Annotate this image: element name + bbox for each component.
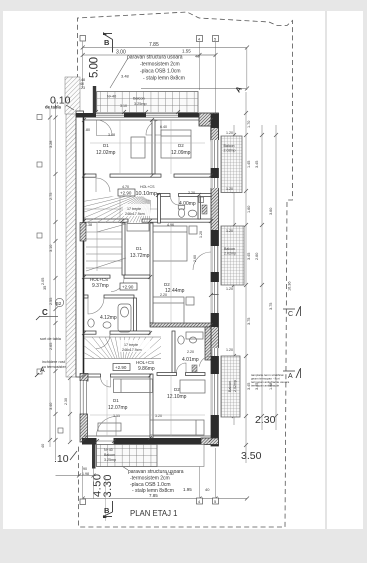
svg-text:3.50: 3.50 xyxy=(241,450,262,462)
svg-text:termopan antiefractie: termopan antiefractie xyxy=(251,384,280,388)
svg-text:B2: B2 xyxy=(56,301,62,306)
svg-text:4.96: 4.96 xyxy=(167,223,174,227)
svg-text:Balcon: Balcon xyxy=(224,144,235,148)
svg-text:B: B xyxy=(104,38,110,47)
svg-text:2.02mp: 2.02mp xyxy=(224,252,236,256)
svg-text:Balcon: Balcon xyxy=(228,381,232,392)
svg-text:1.98: 1.98 xyxy=(82,472,89,476)
svg-text:3.55: 3.55 xyxy=(113,414,120,418)
svg-text:12.10mp: 12.10mp xyxy=(167,394,187,400)
svg-text:inchidere rost: inchidere rost xyxy=(42,360,66,364)
svg-text:4.70: 4.70 xyxy=(122,185,129,189)
svg-text:7.85: 7.85 xyxy=(149,42,159,48)
svg-text:9.37mp: 9.37mp xyxy=(92,283,109,289)
svg-text:1.55: 1.55 xyxy=(182,49,191,54)
sheet fold line xyxy=(325,11,327,529)
lower-left wall: piers + window xyxy=(80,374,88,382)
svg-text:1.20: 1.20 xyxy=(226,131,233,135)
svg-text:D2: D2 xyxy=(178,143,184,148)
svg-text:Balcon: Balcon xyxy=(224,247,235,251)
svg-text:7.85: 7.85 xyxy=(149,493,158,498)
right wall xyxy=(211,114,219,446)
svg-text:40: 40 xyxy=(41,444,45,448)
svg-text:2.65: 2.65 xyxy=(49,343,53,350)
svg-text:D2: D2 xyxy=(174,387,180,392)
svg-text:N+40: N+40 xyxy=(104,448,113,452)
interior door arcs xyxy=(88,178,211,436)
svg-text:1.20: 1.20 xyxy=(226,287,233,291)
svg-text:40: 40 xyxy=(195,54,200,59)
C marker right xyxy=(283,308,295,310)
svg-text:2.20: 2.20 xyxy=(160,293,167,297)
svg-text:12.07mp: 12.07mp xyxy=(108,405,128,411)
svg-text:3.48: 3.48 xyxy=(108,133,115,137)
svg-text:HOL+CS: HOL+CS xyxy=(90,277,108,282)
svg-text:3.20: 3.20 xyxy=(155,414,162,418)
bottom wall xyxy=(82,438,201,445)
svg-text:paravan structura usoara: paravan structura usoara xyxy=(128,469,184,475)
top wall door+window D1 xyxy=(96,113,178,118)
right balcony 3 xyxy=(221,356,240,417)
svg-text:10.10mp: 10.10mp xyxy=(136,191,157,197)
svg-text:3.25mp: 3.25mp xyxy=(104,458,116,462)
svg-text:5.30: 5.30 xyxy=(166,471,175,476)
svg-text:3.45: 3.45 xyxy=(255,161,259,168)
svg-text:2.30: 2.30 xyxy=(255,414,276,426)
svg-text:12.44mp: 12.44mp xyxy=(165,288,185,294)
svg-text:D1: D1 xyxy=(103,143,109,148)
svg-text:4.01mp: 4.01mp xyxy=(182,357,199,363)
svg-text:D1: D1 xyxy=(113,398,119,403)
svg-text:3.00: 3.00 xyxy=(116,50,126,56)
svg-text:246x17.9cm: 246x17.9cm xyxy=(122,348,142,352)
svg-text:2.02mp: 2.02mp xyxy=(233,380,237,392)
svg-text:2.60: 2.60 xyxy=(193,255,197,262)
svg-text:-termosistem 2cm: -termosistem 2cm xyxy=(140,62,180,68)
left insulation strip xyxy=(66,111,76,377)
top-right corner hatch xyxy=(199,113,219,126)
bottom balcony xyxy=(97,445,205,467)
svg-text:17 trepte: 17 trepte xyxy=(127,207,141,211)
svg-text:C: C xyxy=(288,311,293,318)
svg-text:3.30: 3.30 xyxy=(102,475,114,498)
hatched pier left xyxy=(80,223,86,242)
faint interior dim lines xyxy=(90,120,205,436)
A marker right xyxy=(283,370,295,372)
top balcony xyxy=(97,92,198,113)
right balcony 2 xyxy=(221,226,244,285)
svg-text:.80: .80 xyxy=(85,128,90,132)
svg-text:12.02mp: 12.02mp xyxy=(96,150,116,156)
furniture xyxy=(98,130,205,435)
svg-text:1.60: 1.60 xyxy=(247,206,251,213)
svg-text:3.10: 3.10 xyxy=(120,104,127,108)
svg-text:9.86mp: 9.86mp xyxy=(138,366,155,372)
svg-text:A: A xyxy=(288,373,293,380)
svg-text:2.05: 2.05 xyxy=(41,278,45,285)
svg-text:C: C xyxy=(42,308,48,317)
balcony doors arcs xyxy=(97,120,162,136)
svg-text:6.40: 6.40 xyxy=(160,125,167,129)
svg-text:40: 40 xyxy=(205,487,210,492)
+2.90 level boxes xyxy=(113,189,137,371)
svg-text:1.95: 1.95 xyxy=(183,487,192,492)
stairs upper xyxy=(41,184,151,300)
svg-text:2.20: 2.20 xyxy=(187,350,194,354)
stair down-run left xyxy=(86,223,126,271)
top-left stub wall xyxy=(65,77,80,114)
svg-text:cu termosistem: cu termosistem xyxy=(42,365,68,369)
svg-text:.10: .10 xyxy=(54,453,69,465)
svg-text:1.70: 1.70 xyxy=(247,121,251,128)
svg-text:2.02mp: 2.02mp xyxy=(224,149,236,153)
svg-text:12.09mp: 12.09mp xyxy=(171,150,191,156)
svg-text:17 trepte: 17 trepte xyxy=(124,343,138,347)
top wall xyxy=(76,113,219,118)
svg-text:-placa OSB 1.0cm: -placa OSB 1.0cm xyxy=(140,69,181,75)
svg-text:90: 90 xyxy=(83,467,87,471)
svg-text:Balcon: Balcon xyxy=(133,97,145,101)
svg-text:3.28: 3.28 xyxy=(49,141,53,148)
right balcony 1 xyxy=(221,136,242,193)
svg-text:246x17.9cm: 246x17.9cm xyxy=(125,212,145,216)
svg-text:2.75: 2.75 xyxy=(49,193,53,200)
svg-text:3.48: 3.48 xyxy=(121,74,130,79)
svg-text:- stalp lemn 8x8cm: - stalp lemn 8x8cm xyxy=(143,76,185,82)
svg-text:D1: D1 xyxy=(136,246,142,251)
svg-text:1.20: 1.20 xyxy=(226,348,233,352)
svg-text:1.20: 1.20 xyxy=(226,229,233,233)
svg-text:N+40: N+40 xyxy=(107,95,116,99)
svg-text:de tabla: de tabla xyxy=(45,105,61,110)
svg-text:+2.90: +2.90 xyxy=(115,365,127,370)
svg-text:HOL+CS: HOL+CS xyxy=(140,185,155,189)
interior walls (double-line) xyxy=(84,120,211,438)
svg-text:+2.90: +2.90 xyxy=(120,191,132,196)
svg-text:1.38: 1.38 xyxy=(85,223,92,227)
room labels xyxy=(90,143,199,411)
svg-text:3.75: 3.75 xyxy=(247,318,251,325)
svg-text:16.36: 16.36 xyxy=(288,281,292,291)
svg-text:Balcon: Balcon xyxy=(104,453,115,457)
svg-text:3.45: 3.45 xyxy=(247,253,251,260)
svg-text:1.20: 1.20 xyxy=(199,231,203,238)
bathroom fixtures xyxy=(88,197,207,372)
svg-text:-termosistem 2cm: -termosistem 2cm xyxy=(130,476,170,482)
junction ticks xyxy=(82,110,213,443)
svg-text:HOL+CS: HOL+CS xyxy=(136,360,154,365)
svg-text:35: 35 xyxy=(43,286,47,290)
interior tiny dims xyxy=(85,125,233,418)
svg-text:5.00: 5.00 xyxy=(89,57,101,78)
stairs lower (second flight fan) xyxy=(30,279,211,370)
property boundary dashed xyxy=(78,12,293,527)
svg-text:3.25mp: 3.25mp xyxy=(134,102,147,106)
svg-text:4.12mp: 4.12mp xyxy=(100,315,117,321)
svg-text:1.45: 1.45 xyxy=(247,161,251,168)
svg-text:2.55: 2.55 xyxy=(49,298,53,305)
svg-text:sort de tabla: sort de tabla xyxy=(40,337,62,341)
svg-text:2.60: 2.60 xyxy=(255,253,259,260)
svg-text:PLAN ETAJ 1: PLAN ETAJ 1 xyxy=(130,509,178,518)
svg-text:D2: D2 xyxy=(164,282,170,287)
svg-text:3.40: 3.40 xyxy=(49,403,53,410)
svg-text:13.72mp: 13.72mp xyxy=(130,253,150,259)
svg-text:+2.90: +2.90 xyxy=(122,285,134,290)
section marker B top xyxy=(103,34,113,53)
svg-text:3.75: 3.75 xyxy=(269,303,273,310)
left wall core xyxy=(76,111,84,377)
svg-text:paravan structura usoara: paravan structura usoara xyxy=(127,55,183,61)
svg-text:4.00mp: 4.00mp xyxy=(179,201,196,207)
svg-text:3.10: 3.10 xyxy=(49,245,53,252)
svg-text:3.60: 3.60 xyxy=(269,208,273,215)
svg-text:2.30: 2.30 xyxy=(64,398,68,405)
svg-text:2.20: 2.20 xyxy=(188,191,195,195)
right wall windows xyxy=(211,140,219,415)
svg-text:1.20: 1.20 xyxy=(226,187,233,191)
